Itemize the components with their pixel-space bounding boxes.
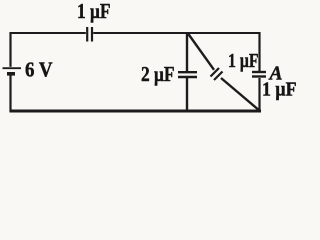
svg-text:1 μF: 1 μF	[262, 79, 297, 101]
svg-text:2 μF: 2 μF	[141, 62, 175, 86]
svg-text:1 μF: 1 μF	[77, 0, 111, 23]
svg-text:1 μF: 1 μF	[228, 50, 259, 72]
svg-text:6 V: 6 V	[25, 58, 53, 82]
